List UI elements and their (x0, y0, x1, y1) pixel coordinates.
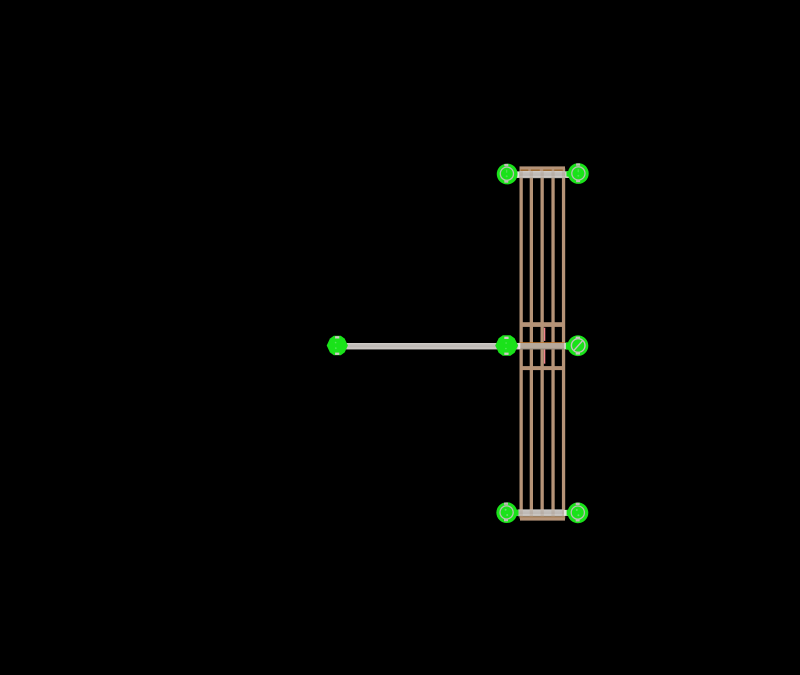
vertical wood beam 1 (520, 169, 523, 519)
top wood beam (520, 166, 566, 171)
long steel rod (left opaque section) (337, 343, 520, 350)
vertical wood beam 4 (551, 169, 554, 519)
bottom steel beam right end cap (564, 510, 570, 516)
bottom wood beam (520, 516, 565, 520)
long steel rod cap right of middle joint (518, 343, 520, 349)
joint J2 top-right (pivot, highlighted green) (566, 163, 588, 184)
top steel beam left end cap (515, 171, 520, 178)
long steel rod right end cap (564, 343, 566, 349)
long steel rod (translucent section over lattice) (520, 343, 566, 350)
joint J7 bottom-right (pivot, highlighted green) (567, 502, 589, 523)
top steel beam (519, 171, 565, 178)
middle center wood beam with orange top edge (520, 342, 566, 348)
vertical wood beam 2 (530, 169, 533, 519)
joint J4 middle-left hexagon (highlighted green) (495, 335, 518, 356)
middle upper crossing wood beam (520, 322, 566, 327)
stressed member segment upper (pink) (544, 328, 546, 341)
bottom steel beam (518, 509, 565, 516)
bottom steel beam left end cap (514, 510, 518, 516)
joint J6 bottom-left (pivot, highlighted green) (496, 502, 518, 523)
stressed member segment lower (pink) (544, 349, 546, 363)
joint J5 middle-right locked joint (highlighted green, slash circle) (566, 335, 589, 356)
middle lower crossing wood beam (520, 366, 566, 370)
vertical wood beam 3 (541, 169, 544, 519)
joint J3 middle far-left hexagon (highlighted green) (327, 336, 348, 355)
top steel beam right end cap (565, 171, 569, 178)
vertical wood beam 5 (562, 169, 565, 519)
joint J1 top-left (pivot, highlighted green) (497, 164, 518, 185)
